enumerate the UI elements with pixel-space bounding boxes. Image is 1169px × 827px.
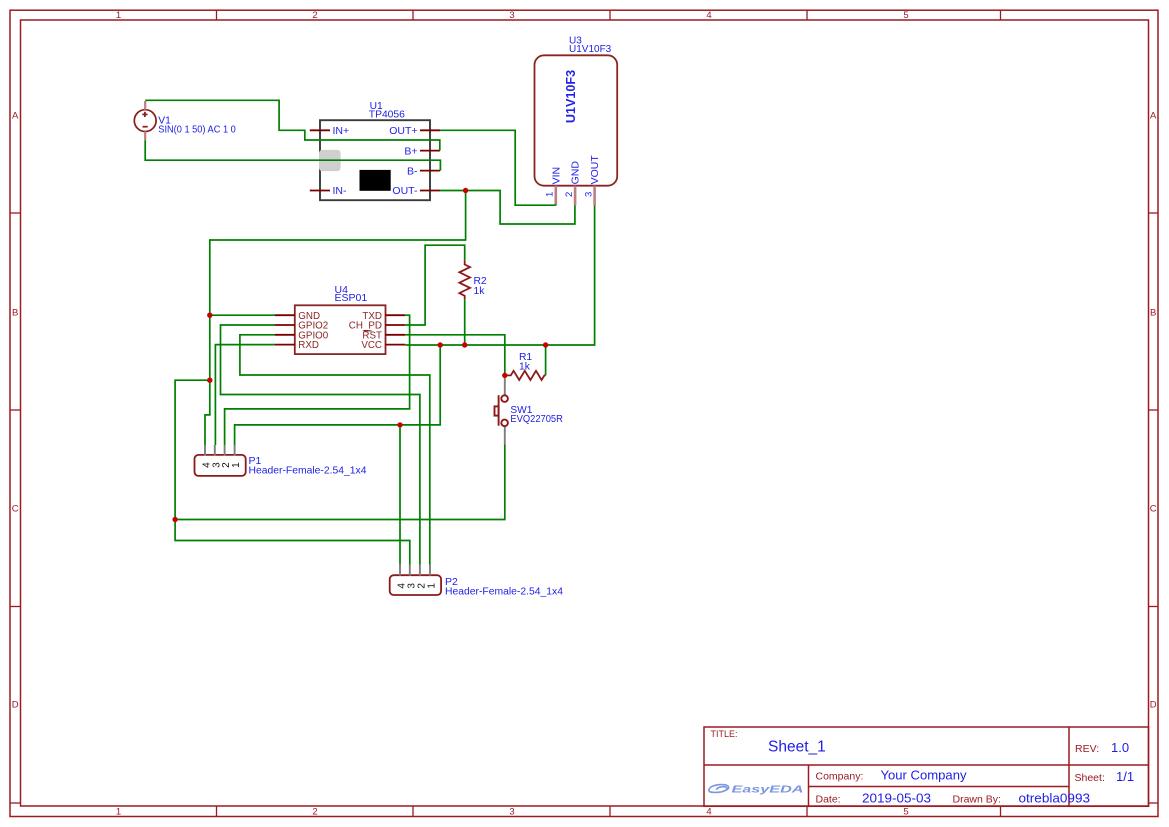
title block values xyxy=(768,739,1134,806)
svg-text:Date:: Date: xyxy=(816,794,841,806)
EasyEDA logo xyxy=(709,784,804,796)
svg-text:1k: 1k xyxy=(474,286,486,297)
svg-text:1/1: 1/1 xyxy=(1116,769,1134,784)
svg-text:3: 3 xyxy=(509,10,514,21)
svg-text:Header-Female-2.54_1x4: Header-Female-2.54_1x4 xyxy=(249,464,367,476)
P2 pin numbers xyxy=(397,583,438,589)
wire GND pin of U4 xyxy=(210,314,275,316)
svg-text:U1V10F3: U1V10F3 xyxy=(563,70,578,123)
P2 labels xyxy=(445,576,563,598)
wire VCC rail riser down xyxy=(235,345,441,445)
U3 labels xyxy=(569,36,612,56)
R2 labels xyxy=(474,276,487,297)
wire VOUT down to VCC rail xyxy=(405,205,594,345)
svg-text:B+: B+ xyxy=(404,145,417,157)
title block xyxy=(704,727,1149,806)
svg-text:TP4056: TP4056 xyxy=(369,110,405,121)
chip U4 body xyxy=(295,305,386,354)
svg-text:1: 1 xyxy=(116,10,121,21)
svg-text:4: 4 xyxy=(706,807,711,818)
wire CH_PD up to R2 xyxy=(405,245,464,325)
svg-text:1: 1 xyxy=(231,462,242,468)
junction dots xyxy=(172,188,548,522)
U3 pin numbers xyxy=(545,192,595,197)
wire OUT+ to VIN xyxy=(440,130,556,205)
R1 labels xyxy=(519,352,532,373)
svg-text:GND: GND xyxy=(569,161,581,185)
svg-text:A: A xyxy=(12,111,19,122)
svg-text:VOUT: VOUT xyxy=(589,155,601,185)
svg-text:EasyEDA: EasyEDA xyxy=(732,784,804,796)
svg-text:EVQ22705R: EVQ22705R xyxy=(510,414,563,425)
svg-text:VIN: VIN xyxy=(550,167,562,185)
SW1 labels xyxy=(510,405,563,425)
svg-text:2: 2 xyxy=(312,807,317,818)
wire V1 top to IN+ column xyxy=(145,100,440,150)
V1 labels xyxy=(158,116,236,136)
U1 labels xyxy=(369,101,405,121)
svg-text:1: 1 xyxy=(116,807,121,818)
wire GPIO2 to P2 pin2 xyxy=(221,325,420,565)
svg-text:C: C xyxy=(12,504,19,515)
wire junction to P1 pin4 xyxy=(205,380,210,445)
title block labels xyxy=(711,729,1105,806)
svg-text:4: 4 xyxy=(706,10,711,21)
svg-text:TITLE:: TITLE: xyxy=(711,729,738,739)
svg-text:1: 1 xyxy=(545,192,556,197)
P1 pins xyxy=(205,445,235,456)
svg-text:IN+: IN+ xyxy=(333,125,350,137)
svg-text:VCC: VCC xyxy=(361,340,382,351)
svg-text:B: B xyxy=(12,308,18,319)
wire OUT- to U3 GND xyxy=(440,191,575,225)
wire GPIO0 to P2 pin1 xyxy=(240,335,430,565)
resistor R2 xyxy=(459,260,470,299)
svg-text:B-: B- xyxy=(407,165,418,177)
wire R1 right up to VCC rail xyxy=(545,345,547,375)
svg-text:3: 3 xyxy=(584,192,595,197)
resistor R1 xyxy=(505,371,546,380)
svg-text:D: D xyxy=(12,700,19,711)
svg-text:RXD: RXD xyxy=(298,340,319,351)
svg-text:OUT-: OUT- xyxy=(392,185,418,197)
P1 labels xyxy=(249,455,367,476)
U4 labels xyxy=(335,284,368,304)
svg-text:Company:: Company: xyxy=(816,771,864,783)
svg-text:2: 2 xyxy=(564,192,575,197)
U4 pin names xyxy=(298,311,382,351)
switch SW1 body xyxy=(495,395,508,426)
wire GND vertical to lower junction xyxy=(209,315,211,380)
svg-text:Your Company: Your Company xyxy=(881,768,968,783)
svg-text:5: 5 xyxy=(903,807,908,818)
P1 pin numbers xyxy=(202,462,243,468)
U1 pin names xyxy=(333,125,419,197)
wire RXD to P1 pin3 xyxy=(215,345,275,445)
wire GND rail to P2 pin3 xyxy=(175,520,410,565)
wire RST to R1 left xyxy=(405,335,505,376)
U1 pins xyxy=(310,130,440,190)
wire SW1 bottom to GND rail xyxy=(175,444,505,519)
wire V1 bottom to B- xyxy=(145,140,440,170)
svg-text:Sheet:: Sheet: xyxy=(1075,772,1105,784)
svg-text:A: A xyxy=(1150,111,1157,122)
svg-text:REV:: REV: xyxy=(1075,743,1099,755)
U3 pin names xyxy=(550,155,600,185)
svg-text:1.0: 1.0 xyxy=(1111,740,1129,755)
RST overline xyxy=(364,330,372,332)
svg-text:otrebla0993: otrebla0993 xyxy=(1019,791,1091,806)
svg-text:3: 3 xyxy=(509,807,514,818)
svg-text:Drawn By:: Drawn By: xyxy=(953,794,1001,806)
header P1 body xyxy=(195,455,246,476)
svg-text:2: 2 xyxy=(312,10,317,21)
svg-text:5: 5 xyxy=(903,10,908,21)
wire VCC branch to P2 pin4 xyxy=(399,425,401,565)
wire R2 bottom to VCC rail xyxy=(464,299,466,345)
chip U1 body xyxy=(320,120,430,200)
svg-text:IN-: IN- xyxy=(333,185,348,197)
voltage source V1 xyxy=(134,110,156,132)
U1 black pad xyxy=(360,170,391,191)
wire GND branch left-down xyxy=(175,380,210,519)
header P2 body xyxy=(390,575,441,595)
P2 pins xyxy=(400,565,430,576)
svg-text:1k: 1k xyxy=(519,361,531,372)
U3 pins xyxy=(556,186,595,206)
svg-text:U1V10F3: U1V10F3 xyxy=(569,44,612,55)
wire GND net down-left xyxy=(210,191,466,316)
svg-text:SIN(0 1 50) AC 1 0: SIN(0 1 50) AC 1 0 xyxy=(158,124,236,135)
U4 pins xyxy=(275,315,406,344)
V1 pin stubs xyxy=(144,101,146,140)
module U3 body xyxy=(535,55,618,185)
svg-text:OUT+: OUT+ xyxy=(389,125,417,137)
svg-text:ESP01: ESP01 xyxy=(335,292,368,304)
svg-text:2019-05-03: 2019-05-03 xyxy=(862,791,931,806)
svg-text:Header-Female-2.54_1x4: Header-Female-2.54_1x4 xyxy=(445,585,563,597)
switch SW1 pins xyxy=(504,378,506,445)
wire TXD to P1 pin2 xyxy=(225,315,410,445)
svg-text:B: B xyxy=(1150,308,1156,319)
svg-text:C: C xyxy=(1150,504,1157,515)
svg-text:1: 1 xyxy=(427,583,438,589)
svg-text:Sheet_1: Sheet_1 xyxy=(768,739,826,756)
U1 gray pad xyxy=(319,150,341,171)
svg-text:D: D xyxy=(1150,700,1157,711)
